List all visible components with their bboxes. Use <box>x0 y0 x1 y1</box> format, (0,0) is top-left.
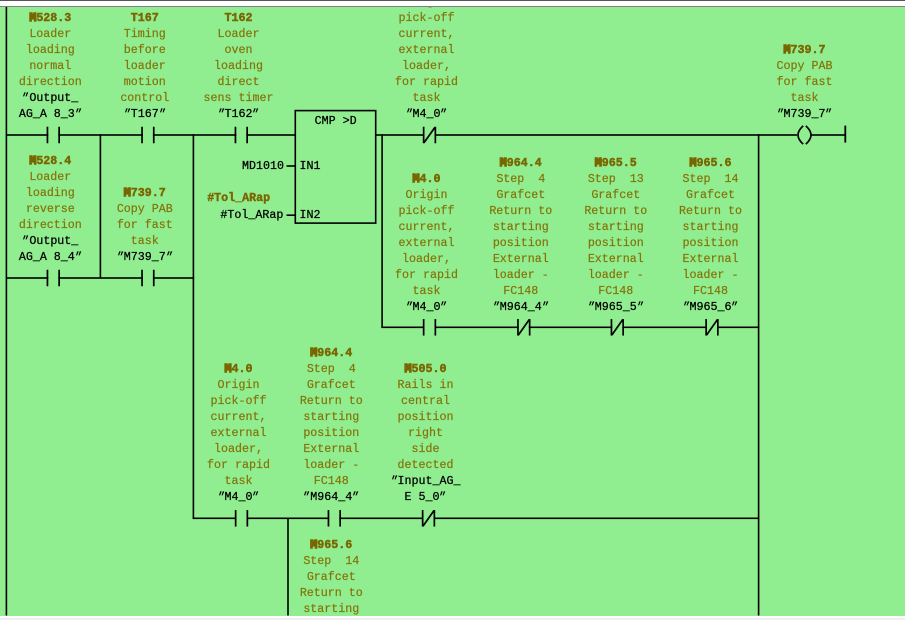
contact M528.4 normally-open <box>47 270 60 287</box>
window chrome bottom gray row <box>0 618 905 620</box>
contact M4_0 normally-open (rung 2) <box>423 319 436 336</box>
window chrome top gray line <box>0 6 905 8</box>
label text column M739.7 (rung 2 col 2) <box>75 185 215 265</box>
contact M528.3 normally-open <box>47 127 60 144</box>
label text column M739.7 (coil) <box>735 42 875 122</box>
left power rail <box>6 7 8 616</box>
contact M964_4 normally-closed (rung 2) <box>517 319 530 336</box>
label text column M964.4 (rung 2 col 5) <box>451 155 591 315</box>
label text column M528.3 (rung 1 col 1) <box>0 10 120 122</box>
contact T162 normally-open <box>235 127 248 144</box>
wire branch vertical E (row 4 branch) <box>287 518 289 616</box>
label text column M4.0 (rung 3 col 1) <box>169 361 309 505</box>
label text column M965.6 (rung 2 col 7) <box>641 155 781 315</box>
label text column M4.0 (rung 1 col 4) <box>357 0 497 122</box>
label text column M528.4 (rung 2 col 1) <box>0 153 120 265</box>
pin label IN2 <box>300 207 321 223</box>
contact M4_0 normally-open (rung 3) <box>235 510 248 527</box>
pin label IN1 <box>300 158 321 174</box>
operand #Tol_ARap for IN2 <box>220 207 283 223</box>
pin stub IN1 <box>287 165 296 167</box>
contact M965_5 normally-closed (rung 2) <box>611 319 624 336</box>
contact T167 normally-open <box>141 127 154 144</box>
operand MD1010 for IN1 <box>242 158 284 174</box>
wire rung 1 horizontal <box>6 134 845 136</box>
label text column T167 (rung 1 col 2) <box>75 10 215 122</box>
label text column M505.0 (rung 3 col 3) <box>356 361 496 505</box>
wire rung 2 right horizontal <box>381 327 759 329</box>
wire junction vertical A (between col1 and col2) <box>100 134 102 278</box>
contact M4_0 normally-closed (rung 1) <box>423 127 436 144</box>
right power rail tick <box>844 126 846 143</box>
contact Input_AG_E 5_0 normally-closed (rung 3) <box>422 510 435 527</box>
pin stub IN2 <box>287 214 296 216</box>
contact M964_4 normally-open (rung 3) <box>328 510 341 527</box>
contact M965_6 normally-closed (rung 2) <box>705 319 718 336</box>
wire rung 3 horizontal <box>193 518 760 520</box>
label text column T162 (rung 1 col 3) <box>169 10 309 122</box>
window chrome top white band <box>0 1 905 6</box>
wire junction vertical D (right collector, x=758) <box>758 134 760 615</box>
label text column M965.5 (rung 2 col 6) <box>546 155 686 315</box>
window chrome bottom strip <box>0 616 905 620</box>
coil M739_7 <box>797 126 811 144</box>
label text column M965.6 (rung 4) <box>261 537 401 620</box>
contact M739_7 normally-open <box>141 270 154 287</box>
wire junction vertical C (after CMP box, down to rung 2 right) <box>381 134 383 327</box>
box title CMP >D <box>315 113 357 129</box>
label text column M4.0 (rung 2 right col 4) <box>357 171 497 315</box>
comparator box CMP >D <box>295 111 375 224</box>
wire junction vertical B (between col2 and col3, down to rung 3) <box>193 134 195 518</box>
wire rung 2 left horizontal <box>6 277 194 279</box>
operand symbol comment #Tol_ARap <box>207 190 270 206</box>
window chrome top edge <box>0 0 905 1</box>
label text column M964.4 (rung 3 col 2) <box>261 345 401 505</box>
